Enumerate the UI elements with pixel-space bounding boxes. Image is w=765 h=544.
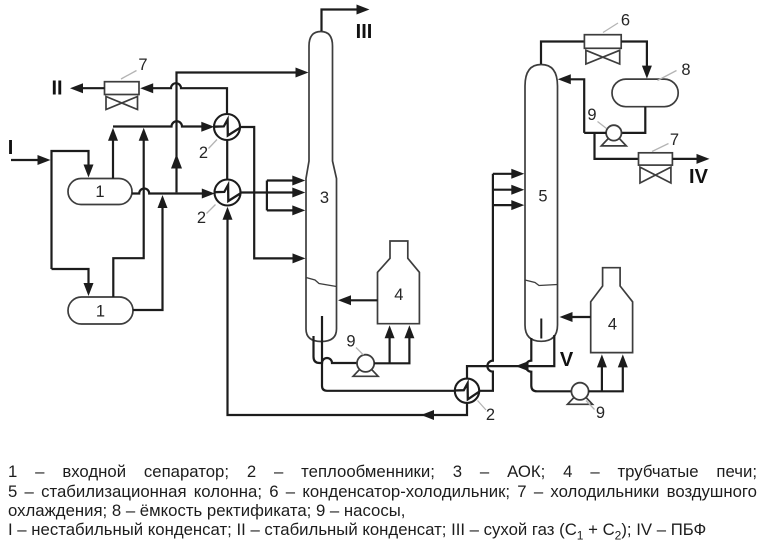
wire column 3 bottom left outlet to pump (hop over draw pipe) (314, 336, 358, 363)
svg-text:9: 9 (346, 333, 355, 351)
svg-text:I: I (8, 137, 14, 159)
column 3 internal draw pipe (321, 316, 323, 341)
legend line 2 (8, 482, 757, 503)
air cooler 7 (top left) (105, 82, 140, 95)
leader line to upper HX (209, 140, 218, 149)
svg-text:1: 1 (95, 183, 104, 201)
column 5 internal draw pipe (540, 319, 542, 339)
wire product branch to air cooler 7 right (595, 133, 639, 159)
svg-text:9: 9 (587, 106, 596, 124)
wire feed to lower separator (52, 269, 89, 284)
wire bottom HX cold outlet up to column 5 feed distributor (hop) (479, 174, 493, 391)
pump 9 (right bottom, column 5 reboiler) (568, 395, 593, 404)
wire left pump discharge to furnace 4 left (374, 337, 409, 363)
wire between upper and lower heat exchangers (226, 140, 228, 180)
wire gas header to heat exchanger 2 upper (hop over vertical) (113, 121, 202, 126)
legend line 3 (8, 501, 757, 522)
condenser-cooler 6 (584, 35, 621, 49)
svg-text:4: 4 (394, 286, 403, 304)
wire lower HX to column 3 feed distributor (241, 191, 267, 193)
leader to top-right pump (598, 122, 607, 129)
svg-text:IV: IV (689, 166, 709, 188)
branch arrow into furnace 4 left (389, 337, 391, 363)
wire column 3 bottoms (internal pipe) to bottom heat exchanger (322, 316, 455, 391)
furnace 4 (right) outline (591, 268, 633, 353)
column 5 (stabilizer) vessel outline (525, 65, 558, 342)
wire gas line from lower separator top (113, 140, 143, 297)
wire column 5 overhead to condenser 6 (541, 42, 584, 65)
svg-text:2: 2 (197, 209, 206, 227)
legend line 4 (8, 520, 757, 544)
wire drum 8 bottom to top-right pump (622, 107, 645, 133)
svg-text:5: 5 (538, 188, 547, 206)
air cooler 7 (right, product) (639, 153, 673, 165)
reflux drum 8 vessel (612, 79, 678, 107)
wire furnace 4 right return to column 5 (566, 316, 591, 318)
mid-line left arrow on return line (421, 410, 434, 420)
wire column 5 bottoms right outlet to bottom HX hot side with mid arrow (467, 335, 554, 379)
branch arrow into furnace 4 right (601, 367, 603, 391)
svg-text:1: 1 (96, 303, 105, 321)
wire lower separator liquid up to outlet line (133, 206, 163, 310)
wire upper HX outlet down-right to column 3 (cooled gas) (240, 127, 298, 258)
heat exchanger 2 (lower) (215, 180, 241, 206)
svg-text:2: 2 (486, 406, 495, 424)
leader to left pump (356, 348, 364, 356)
svg-text:2: 2 (199, 144, 208, 162)
wire furnace 4 left return to column 3 (345, 299, 378, 301)
wire column 3 overhead to III (322, 10, 362, 32)
wire pump discharge manifold (584, 132, 606, 134)
heat exchanger 2 (upper) (214, 114, 240, 140)
leader to right air cooler (652, 144, 669, 152)
svg-text:9: 9 (596, 404, 605, 422)
wire bottom HX hot outlet back to lower HX (stable condensate return) with mid arrow (228, 214, 468, 416)
legend line 1 (8, 462, 757, 483)
svg-text:6: 6 (621, 12, 630, 30)
svg-text:III: III (356, 21, 373, 43)
svg-text:V: V (560, 349, 574, 371)
wire product out IV (672, 158, 697, 160)
svg-text:7: 7 (138, 56, 147, 74)
svg-text:8: 8 (681, 61, 690, 79)
pump 9 (top right, reflux) (601, 137, 626, 146)
separator 1 (lower) vessel (68, 297, 133, 324)
separator 1 (upper) vessel (68, 179, 132, 205)
leader to drum 8 (658, 71, 677, 81)
wire reflux to column 5 top (564, 79, 585, 133)
column 3 (AOK) vessel outline (306, 32, 337, 342)
wire separator liquid outlet to heat exchanger 2 lower (hop) (132, 189, 202, 194)
leader to right bottom pump (586, 401, 595, 410)
wire upper HX top to air cooler 7 (hop over riser) (146, 83, 227, 114)
wire right pump discharge to furnace 4 right (589, 367, 623, 391)
pump 9 (left, column 3 bottoms) (353, 367, 378, 376)
leader to lower HX (207, 205, 216, 214)
svg-text:3: 3 (320, 189, 329, 207)
column 5 liquid level line (525, 280, 558, 286)
feed I arrow into feed header (11, 159, 39, 161)
column 3 liquid level line (306, 278, 337, 287)
wire feed header vertical (52, 151, 89, 269)
heat exchanger 2 (bottom, feed/bottoms) (455, 379, 479, 403)
wire condenser 6 to reflux drum 8 (621, 42, 647, 67)
svg-text:7: 7 (670, 131, 679, 149)
column 3 feed distributor bracket (266, 181, 268, 211)
leader to air cooler 7 (121, 71, 137, 80)
column 5 feed distributor bracket (493, 173, 518, 175)
leader to bottom HX (478, 401, 487, 411)
wire column 5 bottoms left outlet to right pump (hop over horizontal) (526, 338, 571, 391)
wire stable condensate out II (82, 87, 105, 89)
svg-text:4: 4 (608, 316, 617, 334)
leader to condenser 6 (603, 23, 618, 33)
arrow into lower separator (84, 283, 94, 296)
wire riser to column 3 top feed with mid arrow (177, 73, 302, 193)
svg-text:II: II (51, 78, 62, 100)
mid-line up arrow on riser (171, 154, 182, 169)
furnace 4 (left) outline (378, 241, 420, 324)
wire gas line from upper separator top (112, 140, 114, 179)
arrow into upper separator (84, 165, 94, 178)
